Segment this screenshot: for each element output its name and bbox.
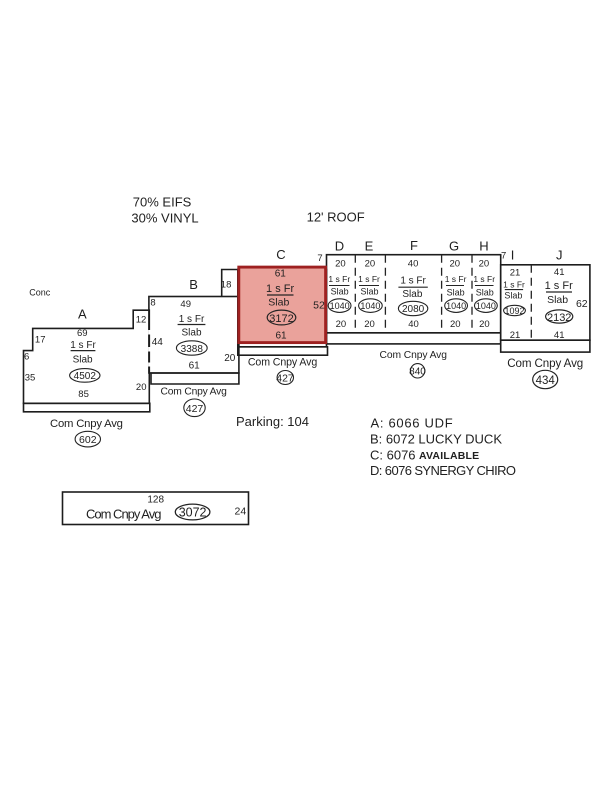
svg-text:H: H bbox=[479, 239, 488, 254]
svg-text:12' ROOF: 12' ROOF bbox=[307, 210, 365, 225]
svg-text:Slab: Slab bbox=[360, 287, 378, 297]
svg-text:1092: 1092 bbox=[504, 306, 524, 316]
svg-text:1 s Fr: 1 s Fr bbox=[328, 274, 350, 284]
svg-text:Slab: Slab bbox=[476, 288, 494, 298]
svg-text:4502: 4502 bbox=[74, 371, 97, 382]
section F labels bbox=[400, 259, 426, 331]
svg-text:18: 18 bbox=[221, 280, 232, 291]
section E labels bbox=[358, 259, 380, 331]
svg-text:1040: 1040 bbox=[330, 301, 350, 311]
svg-text:Slab: Slab bbox=[402, 289, 422, 300]
svg-text:1 s Fr: 1 s Fr bbox=[400, 276, 426, 287]
svg-text:70% EIFS: 70% EIFS bbox=[133, 195, 192, 210]
svg-text:7: 7 bbox=[501, 250, 506, 261]
section J labels bbox=[545, 247, 588, 341]
fraction bar B bbox=[178, 324, 206, 326]
svg-text:J: J bbox=[556, 247, 563, 262]
svg-text:I: I bbox=[511, 247, 515, 262]
svg-text:A: 6066 UDF: A: 6066 UDF bbox=[371, 416, 454, 431]
svg-text:1 s Fr: 1 s Fr bbox=[503, 279, 525, 289]
svg-text:1 s Fr: 1 s Fr bbox=[473, 274, 495, 284]
svg-text:1040: 1040 bbox=[446, 301, 466, 311]
svg-text:52: 52 bbox=[313, 299, 325, 311]
svg-text:20: 20 bbox=[450, 259, 461, 270]
svg-text:Com Cnpy Avg: Com Cnpy Avg bbox=[50, 418, 123, 430]
svg-text:1040: 1040 bbox=[360, 301, 380, 311]
area oval C 3172 bbox=[267, 310, 296, 325]
section B canopy strip bbox=[151, 373, 239, 384]
svg-text:Slab: Slab bbox=[447, 288, 465, 298]
area oval I 1092 bbox=[504, 305, 526, 315]
svg-text:24: 24 bbox=[235, 505, 247, 517]
svg-text:20: 20 bbox=[365, 259, 376, 270]
svg-text:6: 6 bbox=[24, 352, 29, 363]
svg-text:1 s Fr: 1 s Fr bbox=[358, 274, 380, 284]
svg-text:C: C bbox=[276, 247, 285, 262]
sections D-H outline bbox=[327, 255, 501, 333]
svg-text:20: 20 bbox=[336, 319, 347, 330]
svg-text:40: 40 bbox=[408, 319, 419, 330]
svg-text:35: 35 bbox=[25, 373, 36, 384]
svg-text:1 s Fr: 1 s Fr bbox=[445, 274, 467, 284]
svg-text:30% VINYL: 30% VINYL bbox=[131, 211, 198, 226]
svg-text:E: E bbox=[365, 239, 374, 254]
svg-text:69: 69 bbox=[77, 328, 88, 339]
partition D/E bbox=[354, 255, 356, 333]
svg-text:41: 41 bbox=[554, 267, 565, 278]
svg-text:21: 21 bbox=[510, 330, 521, 341]
partition G/H bbox=[471, 255, 473, 333]
svg-text:B: 6072 LUCKY DUCK: B: 6072 LUCKY DUCK bbox=[370, 432, 502, 447]
fraction bar C bbox=[267, 294, 294, 296]
svg-text:A: A bbox=[78, 307, 87, 322]
svg-text:61: 61 bbox=[275, 268, 287, 279]
partition E/F bbox=[384, 255, 386, 333]
svg-text:Com Cnpy Avg: Com Cnpy Avg bbox=[507, 357, 583, 370]
section C labels bbox=[266, 247, 325, 342]
section H labels bbox=[473, 259, 495, 331]
svg-text:20: 20 bbox=[479, 259, 490, 270]
partition F/G bbox=[441, 255, 443, 333]
svg-text:3072: 3072 bbox=[179, 506, 207, 520]
section letters D-H bbox=[335, 238, 489, 254]
svg-text:602: 602 bbox=[79, 434, 97, 446]
area oval H 1040 bbox=[475, 299, 498, 313]
sections I-J outline bbox=[501, 265, 590, 340]
svg-text:20: 20 bbox=[335, 259, 346, 270]
svg-text:20: 20 bbox=[136, 382, 147, 393]
svg-text:427: 427 bbox=[186, 403, 204, 415]
highlighted unit C overlay bbox=[239, 267, 326, 343]
section C outline (under highlight) bbox=[238, 270, 327, 347]
svg-text:D: 6076 SYNERGY CHIRO: D: 6076 SYNERGY CHIRO bbox=[370, 463, 516, 478]
step wall between B and C bbox=[222, 270, 238, 297]
svg-text:62: 62 bbox=[576, 298, 588, 310]
svg-text:3388: 3388 bbox=[181, 344, 204, 355]
svg-text:Com Cnpy Avg: Com Cnpy Avg bbox=[86, 507, 161, 522]
section B labels bbox=[136, 277, 236, 371]
partition I/J bbox=[530, 265, 532, 340]
area oval F 2080 bbox=[398, 301, 427, 315]
svg-text:49: 49 bbox=[180, 299, 191, 310]
svg-text:17: 17 bbox=[35, 335, 46, 346]
section C canopy strip bbox=[238, 347, 328, 355]
svg-text:128: 128 bbox=[147, 495, 164, 506]
svg-text:40: 40 bbox=[408, 259, 419, 270]
svg-text:20: 20 bbox=[364, 319, 375, 330]
partition A/B dashed gaps bbox=[148, 330, 150, 367]
svg-text:AVAILABLE: AVAILABLE bbox=[419, 450, 479, 462]
area oval A 4502 bbox=[70, 369, 100, 383]
svg-text:Slab: Slab bbox=[504, 291, 522, 301]
section D labels bbox=[328, 259, 350, 331]
svg-text:G: G bbox=[449, 239, 459, 254]
svg-text:8: 8 bbox=[150, 298, 155, 309]
svg-text:1 s Fr: 1 s Fr bbox=[179, 314, 205, 325]
svg-text:1 s Fr: 1 s Fr bbox=[545, 280, 573, 292]
section B outline bbox=[149, 297, 239, 374]
svg-text:Conc: Conc bbox=[29, 288, 51, 298]
svg-text:Slab: Slab bbox=[331, 287, 349, 297]
svg-text:Com Cnpy Avg: Com Cnpy Avg bbox=[248, 356, 317, 368]
area oval D 1040 bbox=[328, 299, 351, 313]
section I labels bbox=[501, 247, 525, 341]
svg-text:2080: 2080 bbox=[402, 304, 425, 315]
section A canopy strip bbox=[24, 403, 150, 412]
svg-text:1 s Fr: 1 s Fr bbox=[70, 340, 96, 351]
svg-text:20: 20 bbox=[450, 319, 461, 330]
svg-text:C: 6076: C: 6076 bbox=[370, 448, 416, 463]
svg-text:44: 44 bbox=[152, 337, 164, 348]
svg-text:7: 7 bbox=[317, 253, 322, 264]
area oval E 1040 bbox=[359, 299, 383, 313]
sections D-H canopy strip bbox=[327, 333, 501, 344]
section G labels bbox=[445, 259, 467, 331]
svg-text:85: 85 bbox=[78, 389, 89, 400]
svg-text:840: 840 bbox=[409, 366, 426, 377]
section A outline bbox=[24, 310, 150, 403]
section A labels bbox=[24, 307, 146, 400]
svg-text:427: 427 bbox=[276, 372, 294, 384]
svg-text:3172: 3172 bbox=[269, 313, 293, 325]
svg-text:2132: 2132 bbox=[547, 312, 571, 324]
svg-text:434: 434 bbox=[536, 375, 556, 387]
svg-text:D: D bbox=[335, 239, 344, 254]
area oval G 1040 bbox=[445, 299, 468, 313]
svg-text:Slab: Slab bbox=[73, 354, 93, 365]
svg-text:20: 20 bbox=[479, 319, 490, 330]
area oval B 3388 bbox=[176, 341, 207, 355]
svg-text:20: 20 bbox=[224, 353, 236, 364]
fraction bar A bbox=[71, 350, 96, 352]
area oval J 2132 bbox=[546, 310, 573, 323]
svg-text:Com Cnpy Avg: Com Cnpy Avg bbox=[380, 350, 448, 361]
bottom summary box bbox=[63, 492, 249, 525]
svg-text:1040: 1040 bbox=[476, 301, 496, 311]
svg-text:Com Cnpy Avg: Com Cnpy Avg bbox=[161, 387, 228, 398]
svg-text:B: B bbox=[189, 277, 198, 292]
sections I-J canopy strip bbox=[501, 340, 590, 352]
svg-text:Slab: Slab bbox=[547, 294, 568, 306]
svg-text:Slab: Slab bbox=[181, 328, 201, 339]
svg-text:F: F bbox=[410, 238, 418, 253]
svg-text:61: 61 bbox=[189, 361, 201, 372]
svg-text:Slab: Slab bbox=[268, 297, 289, 309]
svg-text:12: 12 bbox=[136, 315, 147, 326]
svg-text:21: 21 bbox=[510, 268, 521, 279]
svg-text:Parking: 104: Parking: 104 bbox=[236, 414, 309, 429]
svg-text:1 s Fr: 1 s Fr bbox=[266, 283, 294, 295]
svg-text:61: 61 bbox=[275, 331, 287, 342]
svg-text:41: 41 bbox=[554, 330, 565, 341]
